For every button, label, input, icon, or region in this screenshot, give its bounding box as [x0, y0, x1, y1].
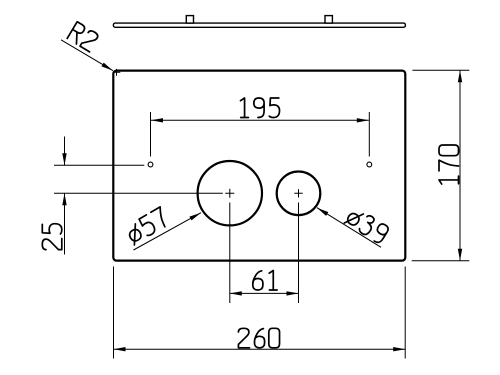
dim 170: text	[439, 145, 459, 184]
dim 195: dimension line	[151, 119, 369, 121]
dim 25: upper arrow shaft	[64, 137, 66, 166]
dim 195: text	[240, 98, 279, 118]
center cross D39	[294, 189, 302, 197]
dim 61: extension line right (D39 centerline down)	[298, 203, 300, 304]
dim D39: arrow	[316, 206, 329, 216]
dim D57: leader line	[134, 213, 202, 250]
dim 25: arrow up	[62, 193, 66, 205]
dim 195: arrow left	[151, 118, 163, 122]
dim 61: extension line left (D57 centerline down)	[229, 203, 231, 304]
dim 25: centerline to D57	[54, 192, 223, 194]
side view bar (top profile)	[113, 23, 405, 27]
dim R2: text	[67, 22, 99, 52]
small hole right	[367, 162, 372, 167]
dim 260: arrow right	[393, 347, 405, 351]
dim R2: corner radius center cross	[113, 69, 121, 76]
dim 260: extension line left	[113, 267, 115, 359]
dim 170: extension line bottom	[412, 260, 470, 262]
circle D57	[198, 161, 262, 225]
dim R2: leader line	[61, 40, 113, 71]
dim 170: arrow bottom	[458, 249, 462, 261]
dim 260: extension line right	[404, 267, 406, 359]
dim 61: arrow left	[230, 291, 242, 295]
center cross D57	[225, 189, 234, 198]
dim 195: extension line left	[150, 112, 152, 157]
dim 61: dimension line	[230, 292, 299, 294]
circle D39	[277, 172, 321, 216]
plate outline (front view, R2 corners)	[113, 71, 405, 261]
dim R2: arrow at corner	[101, 63, 114, 73]
dim 170: arrow top	[458, 70, 462, 82]
dim 170: extension line top	[412, 69, 469, 71]
dim 195: arrow right	[357, 118, 369, 122]
dim 25: lower arrow shaft	[64, 193, 66, 254]
dim 260: arrow left	[114, 347, 126, 351]
dim D57: text	[124, 207, 170, 245]
dim D57: arrow	[189, 211, 202, 221]
dim 260: text	[238, 328, 279, 348]
dim 61: text	[253, 271, 277, 291]
dim 25: arrow down	[62, 153, 66, 165]
dim 260: dimension line	[114, 348, 406, 350]
side view tab 1	[186, 16, 193, 24]
side view tab 2	[325, 16, 332, 24]
dim 25: line at hole level	[54, 164, 144, 166]
dim D39: leader line	[317, 208, 381, 248]
dim D39: text	[344, 206, 390, 245]
dim 61: arrow right	[287, 291, 299, 295]
small hole left	[148, 162, 153, 167]
dim 25: text	[42, 224, 62, 250]
dim 195: extension line right	[368, 112, 370, 157]
dim 170: dimension line	[459, 70, 461, 261]
